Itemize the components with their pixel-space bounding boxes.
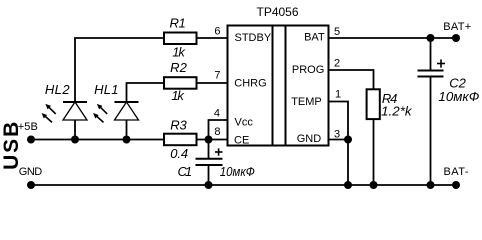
wire HL2 bottom to rail [74, 120, 76, 140]
svg-text:8: 8 [214, 126, 220, 138]
wire GND rail bottom [31, 184, 456, 186]
wire C1 bottom to rail [208, 165, 210, 185]
svg-text:1k: 1k [171, 88, 185, 103]
svg-text:10мкФ: 10мкФ [220, 164, 255, 179]
svg-text:CHRG: CHRG [234, 77, 266, 89]
node pin3/pin1 junction [344, 136, 352, 144]
resistor R1 [164, 16, 197, 60]
node C1/rail junction [205, 181, 213, 189]
wire R3 right to CE pin [197, 139, 228, 141]
svg-text:1.2*k: 1.2*k [381, 104, 413, 119]
svg-text:Vcc: Vcc [235, 117, 254, 129]
wire pin1 TEMP down [329, 102, 349, 186]
wire C1 top [208, 140, 210, 159]
svg-text:TP4056: TP4056 [256, 5, 298, 19]
node C2/rail junction [427, 181, 435, 189]
resistor R4 [367, 89, 414, 119]
svg-text:5: 5 [334, 26, 340, 38]
svg-text:BAT-: BAT- [444, 166, 469, 178]
node Vcc/CE/C1 junction [205, 136, 213, 144]
svg-text:TEMP: TEMP [291, 96, 322, 108]
node HL2/rail junction [71, 136, 79, 144]
resistor R2 [164, 60, 197, 103]
node GND terminal [27, 181, 35, 189]
wire C2 top [430, 38, 432, 71]
svg-text:C1: C1 [178, 164, 193, 179]
wire R1 left to HL2 top [75, 38, 164, 102]
wire +5V rail left [31, 139, 164, 141]
svg-text:10мкФ: 10мкФ [438, 89, 479, 104]
wire R2 left to HL1 top [127, 83, 165, 102]
op-amp U1 TP4056 body [228, 26, 329, 146]
node +5V terminal [27, 136, 35, 144]
svg-text:+5В: +5В [18, 121, 38, 133]
svg-text:R2: R2 [170, 60, 187, 75]
svg-text:BAT: BAT [304, 32, 325, 44]
svg-text:BAT+: BAT+ [443, 21, 471, 33]
capacitor C1 [178, 148, 255, 179]
LED HL2 [42, 82, 87, 122]
wire Vcc pin4 [209, 120, 228, 140]
svg-text:6: 6 [214, 26, 220, 38]
node BAT- terminal [452, 181, 460, 189]
wire pin7 to R2 [197, 82, 228, 84]
svg-text:GND: GND [19, 166, 42, 178]
wire C2 bottom to rail [430, 77, 432, 186]
svg-text:1k: 1k [172, 45, 186, 60]
node HL1/rail junction [123, 136, 131, 144]
wire HL1 bottom to rail [126, 120, 128, 140]
LED HL1 [93, 82, 138, 122]
svg-text:HL2: HL2 [45, 82, 70, 97]
svg-text:CE: CE [234, 135, 249, 147]
svg-text:GND: GND [297, 133, 322, 145]
svg-text:R1: R1 [170, 16, 186, 31]
wire pin6 to R1 [197, 37, 228, 39]
capacitor C2 [418, 59, 480, 104]
svg-text:7: 7 [214, 70, 220, 82]
node C2/BAT wire junction [427, 34, 435, 42]
resistor R3 [164, 118, 197, 162]
svg-text:PROG: PROG [292, 64, 324, 76]
wire pin3 GND stub [329, 139, 349, 141]
wire pin2 PROG to R4 top [329, 70, 374, 89]
svg-text:0.4: 0.4 [170, 146, 188, 161]
svg-text:3: 3 [334, 129, 340, 141]
node BAT+ terminal [452, 34, 460, 42]
svg-text:R3: R3 [170, 118, 187, 133]
wire R4 bottom to rail [373, 119, 375, 185]
wire pin5 BAT to BAT+ [329, 37, 457, 39]
svg-text:2: 2 [334, 58, 340, 70]
svg-text:STDBY: STDBY [235, 32, 272, 44]
svg-text:4: 4 [214, 108, 220, 120]
node pin1/rail junction [344, 181, 352, 189]
svg-text:HL1: HL1 [94, 82, 118, 97]
node R4/rail junction [370, 181, 378, 189]
svg-text:1: 1 [335, 89, 341, 101]
